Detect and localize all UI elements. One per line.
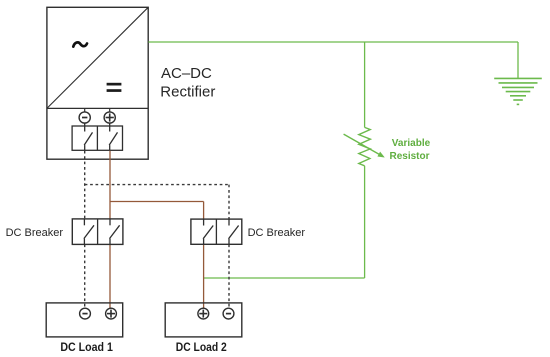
AC tilde symbol (73, 42, 87, 46)
svg-text:Resistor: Resistor (390, 151, 430, 162)
wire green drop to ground (517, 42, 519, 78)
DC breaker 1 box (72, 219, 123, 245)
variable resistor arrow (344, 134, 385, 157)
DC breaker 2 switch right (229, 219, 239, 244)
wire brown plus branch horizontal (110, 201, 204, 203)
rectifier section divider (47, 107, 148, 109)
DC load 1 box (46, 303, 123, 337)
DC breaker 2 switch left (203, 219, 213, 244)
rectifier U1 outer box (47, 7, 148, 159)
svg-text:Variable: Variable (392, 138, 431, 149)
DC equals symbol (107, 83, 122, 92)
wire brown plus branch vertical to breaker2 (203, 202, 205, 220)
ground (494, 78, 542, 104)
svg-text:AC–DC: AC–DC (161, 65, 212, 82)
svg-text:DC Load 2: DC Load 2 (176, 340, 227, 354)
wire brown plus breaker1 to load1 (109, 244, 111, 308)
rectifier plus terminal (104, 108, 115, 123)
svg-text:DC Breaker: DC Breaker (248, 227, 306, 239)
svg-text:DC Breaker: DC Breaker (6, 227, 64, 239)
DC breaker 2 box (191, 219, 242, 244)
wire green top rail (148, 41, 518, 43)
DC load 1 minus terminal (80, 308, 91, 319)
DC breaker 1 switch right (110, 219, 120, 245)
wire dashed minus branch horizontal (85, 184, 229, 186)
svg-text:Rectifier: Rectifier (160, 83, 215, 100)
rectifier internal switch right (109, 123, 117, 150)
rectifier diagonal (47, 7, 148, 108)
DC breaker 1 switch left (84, 219, 94, 245)
DC load 2 minus terminal (223, 308, 234, 319)
wire dashed minus breaker2 to load2 (228, 244, 230, 308)
variable resistor zigzag (359, 127, 371, 165)
wire green bottom horizontal (204, 277, 365, 279)
wire green below resistor (364, 166, 366, 278)
wire green branch down to resistor (364, 42, 366, 127)
wire dashed minus breaker1 to load1 (84, 244, 86, 308)
rectifier minus terminal (79, 108, 90, 123)
wire dashed minus branch vertical to breaker2 (228, 185, 230, 220)
wire brown plus breaker2 to load2 (203, 244, 205, 308)
DC load 2 box (165, 303, 242, 337)
wire brown plus: rectifier to breaker1 (109, 151, 111, 219)
DC load 1 plus terminal (106, 308, 117, 319)
rectifier internal switch left (84, 123, 92, 150)
DC load 2 plus terminal (198, 308, 209, 319)
svg-text:DC Load 1: DC Load 1 (60, 340, 113, 354)
wire dashed minus: rectifier to breaker1 (84, 151, 86, 219)
rectifier internal breaker box (72, 126, 122, 150)
